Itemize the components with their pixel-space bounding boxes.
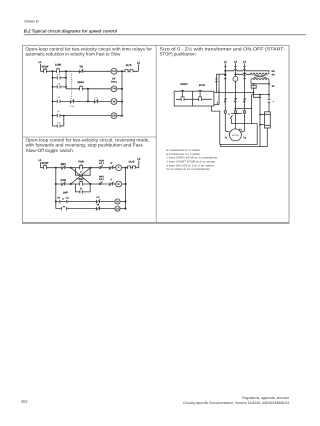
- overload contacts OL's: [125, 70, 133, 73]
- contact FOR normally-closed: [61, 182, 65, 186]
- wire 1 START-STOP to X1: [254, 88, 261, 97]
- blade tick L2: [234, 65, 236, 67]
- blade tick L3: [243, 65, 245, 67]
- svg-text:H2: H2: [272, 70, 276, 73]
- wire transformer tap H1: [225, 69, 269, 72]
- svg-text:TR: TR: [79, 66, 83, 69]
- coil rectangle: [264, 112, 270, 128]
- svg-text:STOP) pushbutton: STOP) pushbutton: [160, 52, 196, 57]
- svg-text:L2: L2: [137, 158, 141, 161]
- svg-text:3: 3: [228, 113, 230, 116]
- contact arrow mark: [230, 115, 232, 119]
- node dot: [268, 83, 270, 85]
- svg-text:2: 2: [217, 102, 219, 105]
- wire coil feeder: [259, 95, 261, 147]
- contact LO normally-closed: [94, 99, 98, 103]
- table column divider: [155, 45, 157, 222]
- wire coil return: [221, 128, 268, 147]
- svg-text:HI: HI: [58, 110, 61, 113]
- wire HI rung: [56, 201, 126, 203]
- node dot: [52, 101, 54, 103]
- node dot: [121, 88, 123, 90]
- wire HI coil rung: [53, 100, 123, 102]
- wire L1 drop: [40, 64, 42, 71]
- contact HI normally-open: [57, 114, 60, 117]
- svg-text:H4 transformer to L2 starter: H4 transformer to L2 starter: [166, 153, 200, 156]
- svg-text:LOW: LOW: [55, 63, 61, 66]
- coil R: [116, 181, 122, 187]
- node dot X1: [253, 83, 255, 85]
- svg-text:OL'S: OL'S: [129, 160, 135, 163]
- pushbutton START: [181, 90, 185, 101]
- wire phase L3: [241, 63, 245, 132]
- fuse marks L1: [224, 75, 227, 79]
- pushbutton REV: [79, 181, 83, 186]
- node junction F2: [90, 183, 92, 185]
- node dot: [125, 208, 127, 210]
- toggle switch Fast-Slow: [60, 200, 67, 203]
- svg-text:LS 1: LS 1: [99, 178, 105, 181]
- svg-text:LO: LO: [116, 208, 120, 211]
- node dot: [52, 115, 54, 117]
- station internal wire: [176, 98, 212, 100]
- node dot: [259, 114, 261, 116]
- contact CR normally-open holding: [57, 124, 60, 127]
- wire secondary terminals: [251, 80, 269, 84]
- svg-text:F: F: [118, 167, 120, 170]
- svg-text:Off: Off: [112, 77, 116, 80]
- node junction C2: [90, 167, 92, 169]
- node dot: [65, 77, 67, 79]
- contact LO normally-closed: [96, 199, 100, 203]
- svg-text:X2 on starter to X2 on transfo: X2 on starter to X2 on transformer: [166, 168, 210, 171]
- node dot: [52, 86, 54, 88]
- wire CR coil rung: [53, 115, 123, 117]
- wire interlock diagonal 2: [71, 168, 91, 184]
- pushbutton station box: [174, 91, 214, 106]
- svg-text:MOTOR: MOTOR: [232, 134, 240, 137]
- wire starter link: [232, 123, 258, 125]
- svg-text:L3: L3: [243, 60, 247, 63]
- pushbutton HIGH: [79, 85, 83, 90]
- svg-text:L1: L1: [39, 61, 43, 64]
- contact R normally-closed: [109, 166, 113, 170]
- wire branch rail B: [65, 71, 67, 89]
- node dot: [121, 101, 123, 103]
- header rule: [24, 34, 306, 36]
- wire 1 box link: [214, 92, 254, 94]
- wire left rail: [55, 168, 57, 209]
- wire feed drop 2: [218, 74, 220, 104]
- wire top rung: [41, 167, 139, 169]
- svg-text:REV: REV: [79, 178, 84, 181]
- wire holding rung CR: [53, 86, 67, 88]
- node dot: [259, 94, 261, 96]
- limit switch REV LS: [99, 183, 101, 185]
- svg-text:X2: X2: [272, 85, 276, 88]
- coil LO: [115, 206, 120, 211]
- coil LO: [111, 68, 117, 74]
- svg-text:HI: HI: [113, 100, 116, 103]
- node dot tap1: [224, 70, 226, 72]
- node L2: [138, 64, 140, 71]
- wire coil stub 1: [260, 114, 264, 116]
- svg-text:L2: L2: [234, 60, 238, 63]
- wire interlock diagonal 1: [71, 168, 91, 184]
- svg-text:FOR: FOR: [61, 179, 66, 182]
- svg-text:LO: LO: [112, 70, 116, 73]
- svg-text:F: F: [111, 178, 113, 181]
- svg-text:3 from ON-OFF to 3 a/ V on sta: 3 from ON-OFF to 3 a/ V on starter: [166, 164, 214, 167]
- svg-text:L2: L2: [137, 61, 141, 64]
- table row divider (left column): [22, 136, 156, 138]
- svg-text:STOP: STOP: [42, 162, 49, 165]
- node dot: [235, 108, 237, 110]
- node dot tap2: [234, 73, 236, 75]
- node dot: [55, 183, 57, 185]
- svg-text:REV: REV: [99, 176, 104, 179]
- contact HI normally-closed: [96, 206, 100, 210]
- svg-text:TR: TR: [57, 96, 60, 99]
- wire drop D: [87, 89, 89, 102]
- svg-text:CR: CR: [57, 121, 61, 124]
- svg-text:B.2 Typical circuit diagrams f: B.2 Typical circuit diagrams for speed c…: [24, 29, 118, 34]
- wire F holding branch: [75, 168, 90, 176]
- svg-text:Regulations, approvals, struct: Regulations, approvals, structure: [242, 396, 289, 400]
- svg-text:Delay: Delay: [111, 81, 118, 84]
- station partition: [192, 91, 194, 106]
- wire holding rung LO: [53, 77, 67, 79]
- node dot: [63, 115, 65, 117]
- wire coil stub 2: [260, 124, 264, 126]
- svg-text:F: F: [80, 171, 82, 174]
- svg-text:OFF: OFF: [63, 192, 68, 195]
- wire top rung: [41, 70, 139, 72]
- svg-text:LOW: LOW: [70, 105, 75, 108]
- svg-text:STOP: STOP: [199, 84, 206, 87]
- svg-text:HI: HI: [57, 197, 60, 200]
- table outer frame: [22, 45, 289, 222]
- wire X2 drop: [268, 84, 270, 112]
- contact CR normally-open: [57, 85, 60, 88]
- transformer secondary winding: [251, 79, 269, 80]
- svg-text:T1: T1: [225, 137, 228, 140]
- svg-text:automatic reduction in velocit: automatic reduction in velocity from Fas…: [26, 52, 121, 57]
- node L2: [138, 161, 140, 168]
- svg-text:R: R: [118, 183, 120, 186]
- coil HI: [111, 99, 117, 105]
- overload heater L1: [224, 111, 226, 113]
- contact LO normally-open: [57, 76, 60, 79]
- contact F normally-closed: [109, 182, 113, 186]
- svg-text:R: R: [80, 188, 82, 191]
- svg-text:2 from START-STOP to 3 on star: 2 from START-STOP to 3 on starter: [166, 161, 215, 164]
- svg-text:FOR: FOR: [78, 161, 83, 164]
- node junction D2: [125, 167, 127, 169]
- table bottom heavy rule: [22, 222, 289, 224]
- svg-text:CR: CR: [57, 83, 61, 86]
- svg-text:STOP: STOP: [42, 66, 49, 69]
- wire mark drop: [231, 119, 233, 124]
- pushbutton FOR: [79, 164, 83, 169]
- wire right rail: [125, 168, 127, 209]
- wire right rail: [121, 71, 123, 116]
- wire left rail: [52, 71, 54, 115]
- svg-text:T2: T2: [239, 128, 242, 131]
- fuse marks L3: [243, 75, 246, 79]
- wire tap link: [231, 113, 242, 115]
- auxiliary contact 3a: [268, 100, 271, 103]
- node dot tap3: [224, 73, 226, 75]
- fuse X1: [253, 84, 255, 86]
- transformer cross link 2: [254, 75, 267, 78]
- pushbutton STOP: [198, 90, 202, 101]
- overload heater L2: [234, 111, 236, 113]
- svg-text:1 from START-STOP to X1 transf: 1 from START-STOP to X1 transformer: [166, 157, 217, 160]
- svg-text:L1: L1: [224, 60, 228, 63]
- wire LO rung: [56, 208, 126, 210]
- node dot: [268, 94, 270, 96]
- wire control link: [252, 95, 269, 124]
- wire 2 START-STOP to starter: [214, 104, 219, 106]
- svg-text:LO: LO: [57, 74, 60, 77]
- svg-text:HI: HI: [116, 200, 119, 203]
- toggle contact LO: [61, 207, 66, 211]
- node dot: [259, 124, 261, 126]
- svg-text:LO: LO: [95, 96, 98, 99]
- svg-text:with forwards and reversing, s: with forwards and reversing, stop pushbu…: [26, 143, 145, 148]
- contactor contact L3: [243, 98, 246, 102]
- svg-text:Country-specific Documentation: Country-specific Documentation, Version …: [183, 401, 289, 405]
- contact TR normally-closed: [79, 69, 83, 73]
- contactor contact L1: [224, 98, 227, 102]
- wire R holding branch: [75, 184, 90, 192]
- coil F: [116, 165, 122, 171]
- wire coil common tap: [235, 108, 251, 110]
- limit switch FOR LS: [99, 167, 101, 169]
- svg-text:Slow-Off toggle switch: Slow-Off toggle switch: [26, 148, 74, 153]
- svg-text:T3: T3: [243, 137, 246, 140]
- svg-text:Open-loop control for two-velo: Open-loop control for two-velocity circu…: [26, 46, 153, 51]
- node dot: [259, 96, 261, 98]
- node dot: [125, 183, 127, 185]
- svg-text:H4: H4: [272, 74, 276, 77]
- contact R normally-open: [80, 190, 82, 193]
- svg-text:Open-loop control for two-velo: Open-loop control for two-velocity circu…: [26, 137, 151, 142]
- pushbutton LOW: [56, 68, 60, 73]
- wire reverse rung: [56, 183, 126, 185]
- blade tick L1: [224, 65, 226, 67]
- svg-text:OL'S: OL'S: [126, 64, 132, 67]
- transformer cross link 1: [254, 75, 267, 78]
- svg-text:TR: TR: [112, 88, 116, 91]
- svg-text:LO: LO: [96, 196, 99, 199]
- wire phase L2: [234, 63, 236, 129]
- transformer primary winding: [251, 73, 269, 75]
- svg-text:Size of 0 - 2½ with transforme: Size of 0 - 2½ with transformer and ON-O…: [160, 46, 286, 51]
- svg-text:REV: REV: [61, 163, 66, 166]
- wire CR holding branch: [53, 116, 64, 126]
- wire starter feed stub: [216, 73, 225, 75]
- svg-text:HIGH: HIGH: [77, 81, 83, 84]
- overload contacts OL's: [128, 166, 136, 169]
- contact TR normally-open: [57, 100, 60, 103]
- node junction G2: [55, 201, 57, 203]
- node junction D: [87, 88, 89, 90]
- wire transformer tap H4: [235, 73, 251, 75]
- svg-text:LO: LO: [66, 197, 69, 200]
- svg-text:H1 transformer to L1 starter: H1 transformer to L1 starter: [166, 149, 200, 152]
- node dot: [121, 115, 123, 117]
- coil TR: [111, 86, 117, 92]
- svg-text:R: R: [110, 162, 112, 165]
- node dot: [125, 201, 127, 203]
- mechanical link dashed: [71, 73, 73, 99]
- node junction A2: [55, 167, 57, 169]
- svg-text:CR: CR: [112, 115, 116, 118]
- pushbutton STOP: [43, 165, 47, 170]
- wire phase L1: [225, 63, 230, 132]
- node junction A: [52, 70, 54, 72]
- fuse circle L2: [233, 77, 238, 82]
- node dot: [52, 77, 54, 79]
- node junction B: [65, 70, 67, 72]
- node dot: [253, 92, 255, 94]
- node junction E2: [70, 183, 72, 185]
- coil HI: [115, 199, 120, 204]
- wire 3 ON-OFF to starter: [212, 106, 258, 145]
- node junction B2: [70, 167, 72, 169]
- disconnect marks feed: [215, 79, 217, 82]
- contact LOW normally-closed: [70, 99, 74, 103]
- coil CR: [111, 113, 117, 119]
- wire TR coil rung: [66, 88, 122, 90]
- svg-text:START: START: [180, 83, 188, 86]
- node junction C: [121, 70, 123, 72]
- contactor contact L2: [234, 98, 237, 102]
- wire feed drop 1: [215, 74, 217, 92]
- svg-text:Annex B: Annex B: [23, 19, 39, 23]
- svg-text:HI: HI: [97, 204, 100, 207]
- contact REV normally-closed: [61, 166, 65, 170]
- contact F normally-open: [80, 174, 82, 177]
- svg-text:FOR: FOR: [99, 159, 104, 162]
- node junction E: [87, 100, 89, 102]
- pushbutton STOP: [43, 68, 47, 73]
- motor M: [229, 129, 241, 141]
- overload heater L3: [244, 111, 246, 113]
- wire L1 drop: [40, 162, 42, 168]
- svg-text:LS 1: LS 1: [99, 162, 105, 165]
- node dot: [65, 86, 67, 88]
- svg-text:252: 252: [21, 399, 28, 404]
